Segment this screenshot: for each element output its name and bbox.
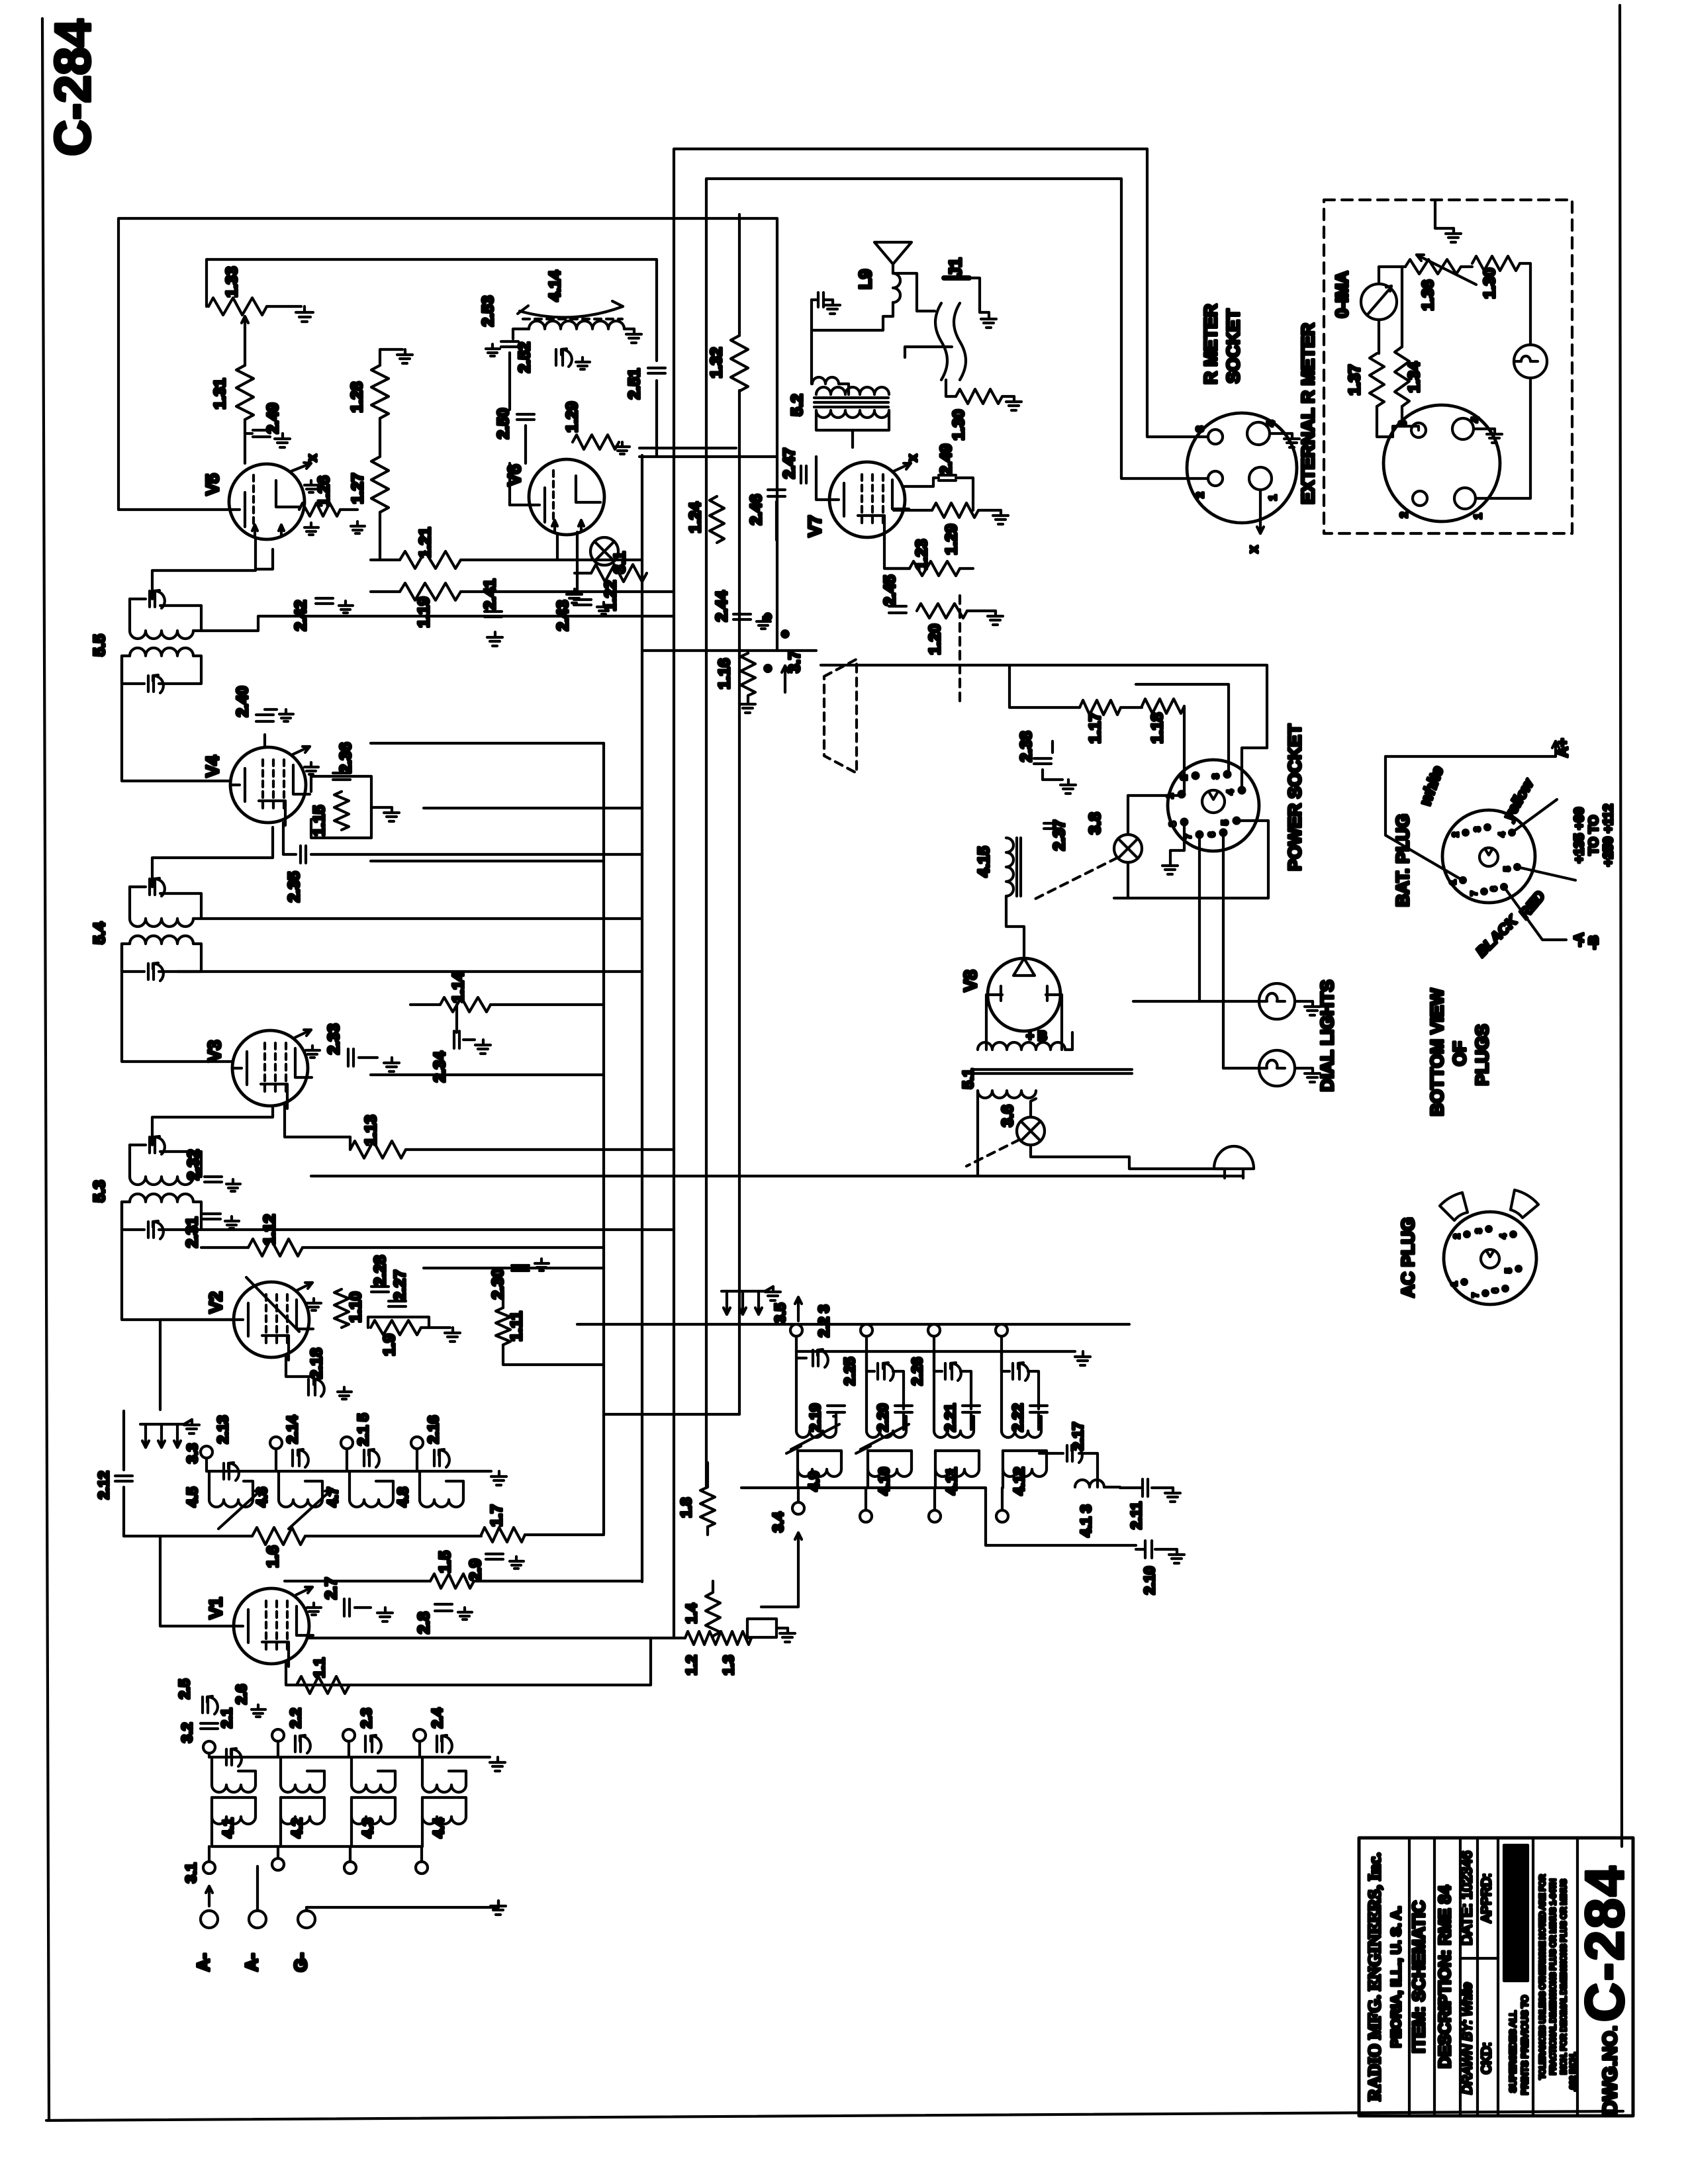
capacitor 2.12 [115, 1476, 132, 1481]
tube V6 [529, 459, 604, 535]
svg-text:V7: V7 [805, 515, 825, 537]
wire [1000, 1336, 1003, 1351]
label 1.26 [315, 476, 333, 507]
wire [1435, 200, 1454, 228]
label 1.19 [415, 597, 433, 628]
ground [339, 601, 353, 613]
wire [1051, 741, 1054, 752]
label 2.23 [816, 1305, 832, 1338]
arrow 3.4 [795, 1533, 802, 1576]
junction dot [765, 665, 771, 672]
trimmer 2.17 [1067, 1445, 1082, 1463]
ground [1169, 1549, 1184, 1563]
wire [455, 1005, 458, 1032]
wire [508, 463, 511, 505]
callout [1504, 887, 1566, 940]
svg-text:ITEM: SCHEMATIC: ITEM: SCHEMATIC [1409, 1900, 1429, 2053]
coil 5.5 secondary [130, 648, 193, 656]
title description [1436, 1886, 1454, 2069]
resistor 1.29 [932, 503, 978, 518]
wire [1120, 1486, 1141, 1489]
svg-text:2.40: 2.40 [234, 686, 252, 717]
svg-text:6: 6 [1490, 1288, 1500, 1293]
label 2.8 [415, 1612, 433, 1633]
capacitor 2.51 [648, 368, 665, 373]
wire [208, 1753, 211, 1757]
lamp wire [1127, 862, 1129, 898]
svg-text:1.13: 1.13 [362, 1115, 380, 1146]
label 4.14 [546, 270, 564, 301]
terminal [996, 1324, 1008, 1336]
title block divider [1433, 1838, 1436, 2116]
ac plug pin 3 [1474, 1226, 1491, 1234]
ac plug key [1481, 1250, 1499, 1268]
ground [226, 1179, 240, 1191]
wire [1378, 320, 1380, 353]
wire [1379, 267, 1405, 284]
ant2 wire [209, 1756, 490, 1758]
svg-text:8: 8 [1167, 821, 1178, 827]
resistor 1.26 [299, 503, 340, 516]
svg-text:L9: L9 [855, 269, 875, 289]
tube V7 [829, 462, 909, 540]
fuse box [747, 1619, 776, 1637]
svg-text:5.2: 5.2 [788, 394, 806, 416]
capacitor 2.41 [485, 612, 502, 617]
svg-text:2.45: 2.45 [881, 575, 899, 606]
svg-text:1: 1 [1448, 880, 1458, 884]
svg-text:1.5: 1.5 [436, 1551, 454, 1572]
svg-text:DATE: 102346: DATE: 102346 [1458, 1851, 1475, 1946]
capacitor 2.35 [301, 846, 306, 863]
wire pin7 down [1198, 835, 1201, 1001]
svg-text:4: 4 [1266, 420, 1277, 426]
bottom terminal [344, 1846, 356, 1874]
bat plug pin 4 [1497, 830, 1515, 837]
svg-text:1: 1 [1268, 494, 1279, 500]
trimmer [1013, 1363, 1029, 1381]
coil 4.1 [212, 1797, 256, 1824]
svg-text:2.14: 2.14 [284, 1415, 301, 1444]
wire [1031, 1099, 1036, 1117]
label 1.37 [1346, 365, 1364, 396]
svg-text:2.3: 2.3 [358, 1708, 375, 1729]
ground [377, 1608, 393, 1621]
wire V6 bottom leads [557, 532, 577, 592]
coil L9 [893, 273, 900, 302]
wire [349, 1137, 352, 1150]
title block divider [1459, 1838, 1462, 2116]
wire V1 grid [160, 1536, 234, 1626]
svg-text:3: 3 [1195, 426, 1206, 432]
label 1.11 [508, 1311, 526, 1341]
label 2.34 [431, 1051, 449, 1082]
label 2.16 [425, 1416, 442, 1444]
wire [835, 1412, 837, 1430]
bottom terminal [272, 1846, 284, 1870]
terminal [790, 1324, 802, 1336]
external r meter dashed box [1324, 200, 1572, 533]
svg-text:2.22: 2.22 [1009, 1404, 1026, 1432]
label 1.17 [1086, 713, 1104, 744]
wire [211, 1817, 213, 1846]
arrow 3.5 [795, 1297, 802, 1321]
label 2.2 [287, 1708, 304, 1729]
wire [130, 598, 146, 600]
label 2.26 [909, 1357, 925, 1386]
wire A+ [1385, 755, 1556, 758]
resistor 1.31 [236, 365, 254, 420]
label 2.49 [264, 403, 282, 434]
trimmer 2.13 [224, 1463, 239, 1480]
wire V2 grid left [160, 1320, 234, 1410]
wire [122, 656, 230, 781]
label 1.32 [708, 347, 726, 379]
wire [303, 1246, 604, 1249]
svg-text:1.12: 1.12 [261, 1214, 279, 1246]
svg-text:BAT. PLUG: BAT. PLUG [1393, 814, 1413, 907]
svg-text:1.26: 1.26 [315, 476, 333, 507]
ground [988, 611, 1003, 625]
label 4.13 [1078, 1505, 1094, 1537]
dial light 2 [1259, 1050, 1295, 1086]
svg-text:0-IMA: 0-IMA [1332, 271, 1352, 318]
svg-text:4.8: 4.8 [395, 1487, 411, 1508]
wire [946, 380, 956, 396]
transformer 5.2 core [814, 398, 888, 407]
wire [201, 616, 674, 631]
wire [371, 742, 604, 745]
ground [252, 1705, 265, 1717]
label 4.12 [1011, 1467, 1027, 1496]
label 1.21 [416, 527, 434, 559]
svg-text:SUPERSEDES ALL: SUPERSEDES ALL [1507, 2011, 1518, 2093]
ac plug pin 1 [1449, 1279, 1467, 1287]
antenna triangle L9 [874, 242, 912, 264]
title tolerances [1538, 1874, 1577, 2091]
coil 5.2 primary [816, 387, 889, 394]
wire [340, 508, 357, 511]
capacitor 2.20 [895, 1406, 912, 1412]
wire [265, 708, 277, 711]
transformer 5.1 winding [978, 1091, 1036, 1098]
svg-text:2.7: 2.7 [322, 1577, 340, 1599]
ground [307, 1298, 321, 1310]
wire [122, 1228, 144, 1231]
ground [981, 314, 996, 328]
label 2.13 [214, 1416, 231, 1444]
terminal [928, 1324, 940, 1336]
resistor 1.19 [400, 583, 461, 600]
svg-text:C-284: C-284 [45, 19, 101, 156]
label V1 [206, 1597, 226, 1619]
capacitor 2.49 [253, 430, 270, 437]
ac plug pin 4 [1498, 1232, 1516, 1239]
svg-text:2.37: 2.37 [1051, 820, 1068, 851]
wire [160, 1152, 201, 1177]
label V5 [203, 473, 222, 495]
svg-text:2.1 5: 2.1 5 [355, 1414, 371, 1446]
capacitor 2.40 [256, 715, 273, 721]
wire [839, 384, 849, 394]
wire [893, 1371, 904, 1409]
wire [1079, 1453, 1098, 1487]
resistor 1.32 [731, 336, 748, 391]
label 1.9 [381, 1334, 399, 1355]
label EXTERNAL R METER [1298, 323, 1318, 504]
wire [305, 1535, 481, 1537]
V8 filament [1001, 958, 1047, 1001]
ground [275, 433, 290, 447]
svg-text:1.7: 1.7 [488, 1504, 506, 1526]
power socket pin 5 [1219, 818, 1240, 825]
wire [892, 264, 894, 273]
resistor 1.3 [718, 1631, 751, 1645]
svg-text:DRAWN BY: White: DRAWN BY: White [1460, 1983, 1475, 2095]
svg-text:1.29: 1.29 [943, 524, 961, 555]
wire bus B6 [776, 218, 778, 651]
resistor 1.29b [573, 435, 619, 449]
svg-text:2.18: 2.18 [308, 1348, 326, 1379]
ground [306, 1046, 320, 1058]
tube V4 [230, 747, 310, 825]
wire plate V5 x [291, 463, 311, 471]
osc bottom terminals [792, 1488, 1008, 1522]
capacitor 2.9 [486, 1554, 503, 1559]
svg-text:4.2: 4.2 [289, 1818, 305, 1839]
wire [1183, 706, 1186, 792]
svg-text:1.34: 1.34 [1405, 361, 1423, 392]
capacitor 2.31 [203, 1214, 220, 1219]
wire [124, 1535, 252, 1537]
wire [122, 656, 130, 684]
wire [497, 1901, 500, 1907]
svg-text:4: 4 [1225, 790, 1235, 795]
ac plug [1444, 1212, 1536, 1304]
svg-text:1.14: 1.14 [449, 972, 467, 1003]
title block divider [1497, 1838, 1499, 2116]
coil 4.3 [352, 1797, 395, 1824]
ground [491, 1901, 506, 1915]
wire [1223, 1067, 1259, 1069]
wire [159, 944, 201, 972]
svg-text:1.8: 1.8 [678, 1498, 694, 1518]
wire [1170, 822, 1184, 860]
coil 4.2 [281, 1797, 324, 1824]
wire [904, 478, 939, 486]
ac plug prong right [1511, 1190, 1538, 1218]
wire [960, 567, 973, 570]
wire [410, 1003, 440, 1006]
label 3.2 [179, 1723, 195, 1743]
wire [639, 455, 776, 458]
wire [976, 1091, 979, 1176]
resistor 1.28 [371, 365, 389, 418]
ext pin 3 [1397, 420, 1426, 437]
label 1.22 [602, 580, 620, 612]
svg-text:1.21: 1.21 [416, 527, 434, 559]
svg-text:G-: G- [291, 1953, 310, 1972]
trimmer 5.4 bottom [148, 963, 164, 981]
resistor 1.15 [334, 792, 349, 830]
label battery voltages [1572, 804, 1616, 950]
svg-text:2.11: 2.11 [1128, 1502, 1145, 1529]
coil 4.9 [798, 1451, 841, 1488]
wire [712, 1581, 714, 1592]
wire [1133, 1000, 1259, 1003]
svg-text:x: x [906, 454, 920, 461]
resistor 1.7 [481, 1527, 525, 1542]
wire [747, 1637, 751, 1639]
title redaction [1504, 1845, 1528, 1981]
svg-text:1.15: 1.15 [310, 805, 328, 837]
svg-text:2.6: 2.6 [233, 1684, 250, 1705]
dashed [966, 1140, 1019, 1166]
left border [42, 19, 49, 2120]
bus wire [738, 390, 741, 1414]
label 2.5 [176, 1679, 193, 1700]
wire [577, 1323, 1129, 1326]
coil 5.3 primary [130, 1177, 193, 1185]
bus wire [673, 455, 675, 1638]
svg-text:2.16: 2.16 [425, 1416, 442, 1444]
trimmer 5.5 bottom [148, 675, 164, 693]
wire [575, 572, 591, 574]
trimmer 2.52 [556, 349, 572, 367]
wire [350, 1817, 353, 1846]
label 2.1 [218, 1708, 235, 1729]
bus wire [705, 463, 708, 1488]
capacitor 3.2 lead [201, 1723, 218, 1729]
wire [525, 1533, 604, 1536]
wire [128, 887, 131, 919]
power socket pin 2 [1178, 773, 1199, 780]
wire [934, 1351, 942, 1371]
wire [884, 537, 910, 569]
wire [821, 665, 1267, 748]
ground [1284, 433, 1299, 447]
label 1.24 [686, 502, 704, 533]
coil 5.2 secondary [816, 410, 889, 418]
trimmer 2.1 5 [364, 1449, 379, 1467]
wire [421, 1817, 424, 1846]
label 4.10 [876, 1467, 892, 1496]
title item [1409, 1900, 1429, 2053]
svg-text:V2: V2 [206, 1291, 226, 1313]
wire [371, 860, 604, 862]
svg-text:1.30: 1.30 [950, 410, 968, 441]
ground cluster 2 [140, 1420, 199, 1447]
trimmer 2.25 [878, 1363, 894, 1381]
label 2.38 [1017, 731, 1035, 762]
wire [279, 1817, 282, 1846]
wire [894, 509, 932, 512]
coil 4.13 [1075, 1480, 1104, 1487]
svg-text:V1: V1 [206, 1597, 226, 1619]
ground cap [812, 293, 840, 314]
wire V1 cathode [286, 1638, 651, 1685]
tube V8 [988, 958, 1060, 1031]
label V6 [504, 464, 524, 486]
label 28 [233, 1684, 250, 1705]
trimmer 2.23 [813, 1349, 828, 1367]
label 1.6 [264, 1545, 282, 1567]
wire 5.3 top [152, 1107, 273, 1145]
tube V5 [229, 464, 305, 539]
arrow x [1257, 490, 1264, 533]
wire [508, 353, 511, 371]
wire [513, 329, 529, 339]
wire [1295, 1000, 1313, 1003]
svg-text:1.2: 1.2 [683, 1655, 700, 1676]
label 1.29b [563, 402, 581, 433]
capacitor 2.27 [389, 1301, 406, 1306]
coil sec [867, 1351, 906, 1437]
wire [969, 278, 989, 312]
label J1 [945, 258, 965, 277]
svg-text:4.11: 4.11 [943, 1467, 960, 1495]
label 1.36 [1419, 280, 1437, 311]
title block divider [1532, 1838, 1534, 2116]
wire [159, 656, 201, 684]
wire [738, 214, 741, 218]
ground [1305, 1068, 1320, 1082]
label 2.32 [185, 1150, 203, 1181]
label 3.4 [770, 1512, 786, 1532]
wire [1128, 796, 1182, 835]
svg-text:1.18: 1.18 [1149, 713, 1166, 744]
label DIAL LIGHTS [1317, 979, 1337, 1091]
wire [796, 1357, 806, 1359]
svg-text:1.32: 1.32 [708, 347, 726, 379]
wire [738, 218, 741, 336]
svg-text:1.4: 1.4 [683, 1603, 700, 1623]
label 2.12 [95, 1471, 112, 1500]
ground [535, 1259, 549, 1271]
svg-text:5.1: 5.1 [960, 1069, 976, 1089]
ground [1487, 429, 1502, 443]
svg-text:2: 2 [1450, 832, 1460, 837]
wire [1385, 756, 1460, 879]
pin 2 [1195, 471, 1223, 498]
coil 4.12 [1003, 1451, 1047, 1488]
ground [1446, 228, 1461, 242]
bottom terminal [203, 1846, 215, 1874]
wire [201, 917, 642, 920]
bus wire [641, 455, 643, 1582]
ext socket [1383, 405, 1500, 522]
svg-text:2.44: 2.44 [713, 590, 731, 621]
terminal [861, 1324, 872, 1336]
ground [351, 522, 365, 533]
capacitor 2.37 [1044, 823, 1061, 829]
svg-text:4.10: 4.10 [876, 1467, 892, 1496]
wire V4 x arrow [293, 747, 310, 754]
capacitor 2.22 [1030, 1406, 1047, 1412]
ground [616, 442, 630, 454]
svg-text:2.47: 2.47 [780, 448, 798, 479]
trimmer 2.3 [365, 1735, 381, 1753]
label 2.31 [183, 1217, 201, 1248]
svg-text:4.5: 4.5 [184, 1487, 201, 1508]
svg-text:2.2 3: 2.2 3 [816, 1305, 832, 1338]
svg-text:2.5: 2.5 [176, 1679, 193, 1700]
wire rail R2 [706, 179, 1207, 478]
svg-text:3.2: 3.2 [179, 1723, 195, 1743]
label 1.28 [348, 382, 366, 413]
callout [1517, 867, 1575, 880]
terminal [201, 1446, 212, 1458]
